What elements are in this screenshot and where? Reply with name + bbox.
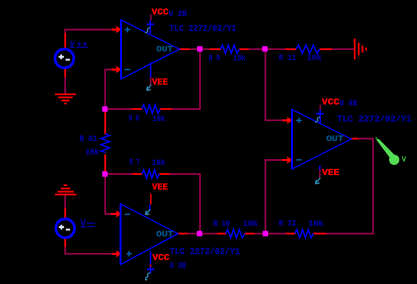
svg-text:OUT: OUT <box>156 45 173 55</box>
svg-text:OUT: OUT <box>326 134 344 144</box>
svg-text:VCC: VCC <box>152 253 170 263</box>
svg-text:R 7: R 7 <box>129 158 140 167</box>
svg-text:R G1: R G1 <box>80 135 98 144</box>
svg-text:VEE: VEE <box>152 78 169 88</box>
svg-text:R 12: R 12 <box>279 220 297 229</box>
svg-text:TLC 2272/02/Y1: TLC 2272/02/Y1 <box>337 113 412 124</box>
svg-text:10k: 10k <box>233 55 245 64</box>
svg-text:10k: 10k <box>243 220 258 229</box>
svg-text:R 11: R 11 <box>279 54 297 63</box>
svg-text:VCC: VCC <box>152 8 170 18</box>
svg-text:OUT: OUT <box>156 229 173 239</box>
svg-text:R 8: R 8 <box>129 114 140 123</box>
svg-text:R 10: R 10 <box>213 220 230 229</box>
svg-text:10k: 10k <box>308 220 324 229</box>
svg-text:TLC 2272/02/Y1: TLC 2272/02/Y1 <box>170 246 240 257</box>
svg-text:10k: 10k <box>153 115 166 124</box>
svg-text:U 3B: U 3B <box>170 262 186 271</box>
svg-text:R 9: R 9 <box>209 55 221 64</box>
svg-text:TLC 2272/02/Y1: TLC 2272/02/Y1 <box>169 23 236 34</box>
svg-text:VCC: VCC <box>322 98 340 108</box>
svg-text:V: V <box>402 157 407 165</box>
svg-text:VEE: VEE <box>322 168 340 178</box>
svg-text:U 4B: U 4B <box>340 100 357 109</box>
svg-text:10k: 10k <box>85 149 99 158</box>
svg-text:10k: 10k <box>152 159 165 168</box>
svg-text:10k: 10k <box>307 54 322 63</box>
svg-text:VEE: VEE <box>152 183 169 193</box>
svg-text:U 2B: U 2B <box>169 10 188 19</box>
